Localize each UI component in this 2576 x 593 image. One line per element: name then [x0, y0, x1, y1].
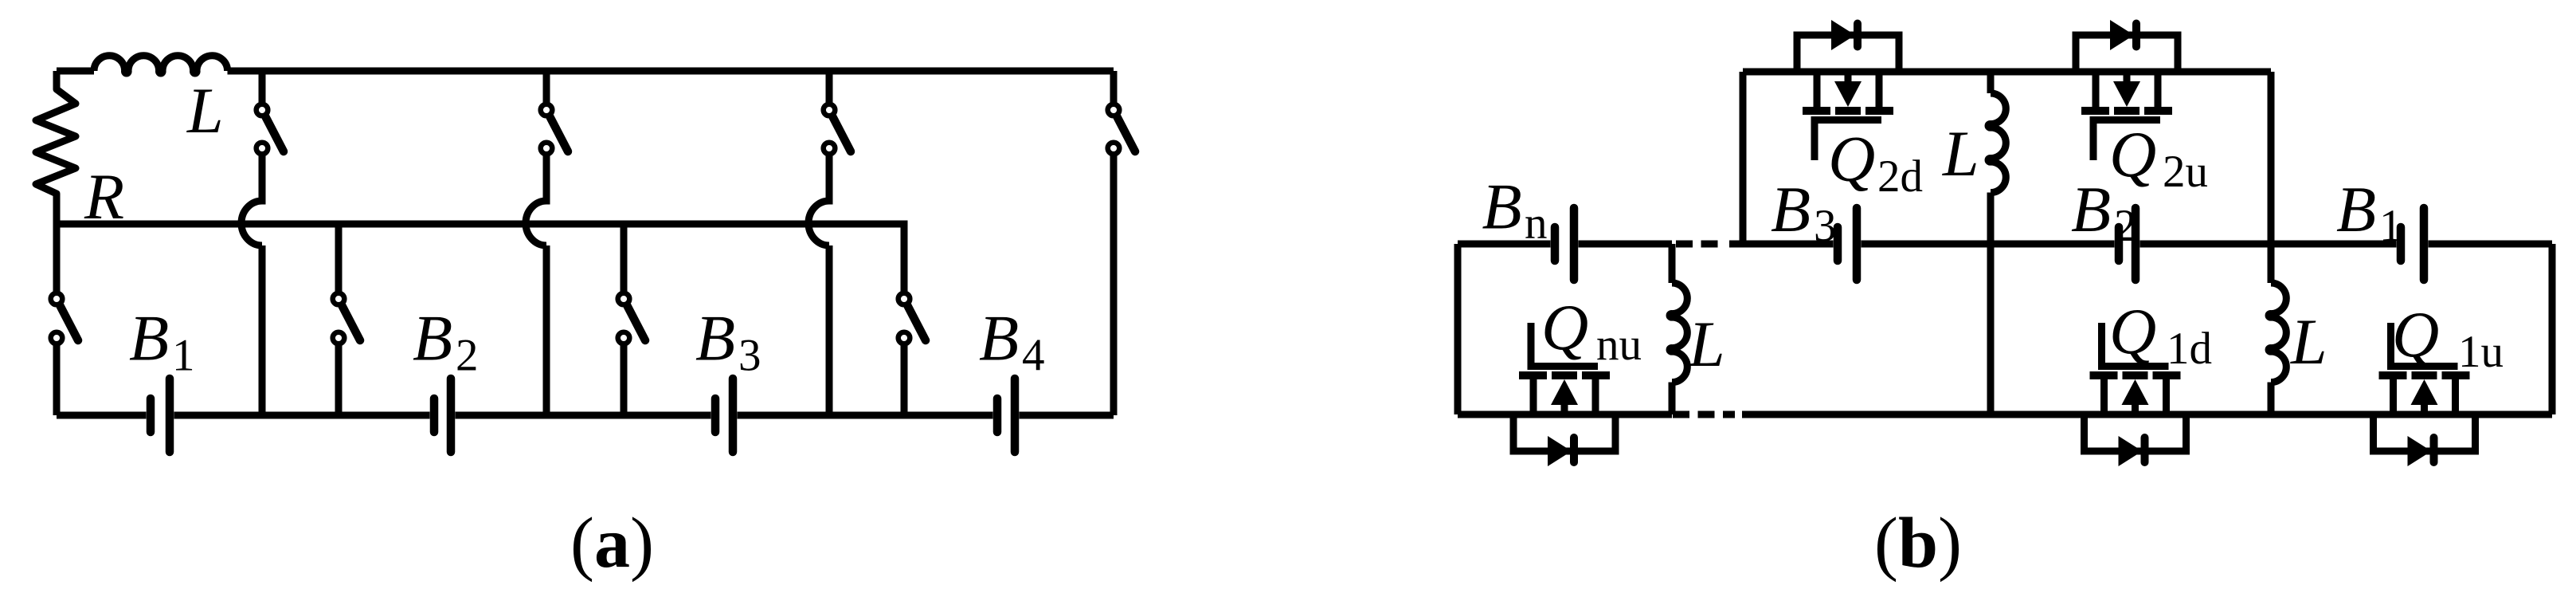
svg-text:3: 3	[738, 331, 761, 381]
svg-text:2: 2	[2114, 201, 2137, 251]
svg-text:1d: 1d	[2167, 324, 2212, 374]
svg-text:Q: Q	[1541, 291, 1588, 363]
svg-text:4: 4	[1022, 331, 1045, 381]
svg-text:B: B	[413, 302, 452, 375]
svg-text:Q: Q	[1828, 123, 1875, 195]
svg-text:n: n	[1525, 198, 1548, 249]
svg-text:L: L	[1942, 117, 1979, 190]
svg-text:2: 2	[456, 331, 479, 381]
svg-text:B: B	[695, 302, 735, 375]
svg-text:B: B	[1482, 171, 1522, 243]
svg-text:1u: 1u	[2458, 327, 2504, 377]
svg-text:Q: Q	[2392, 298, 2439, 371]
svg-text:(a): (a)	[570, 504, 654, 583]
svg-text:1: 1	[2379, 201, 2402, 251]
svg-text:L: L	[186, 74, 224, 147]
svg-text:3: 3	[1814, 201, 1837, 251]
svg-text:1: 1	[172, 331, 195, 381]
svg-text:Q: Q	[2109, 295, 2156, 367]
svg-text:L: L	[2290, 305, 2327, 378]
svg-text:R: R	[84, 160, 124, 233]
svg-text:L: L	[1688, 308, 1725, 380]
svg-text:Q: Q	[2109, 118, 2156, 190]
svg-text:B: B	[2336, 173, 2376, 245]
svg-text:2d: 2d	[1877, 151, 1923, 202]
svg-text:nu: nu	[1596, 320, 1642, 370]
svg-text:B: B	[2071, 173, 2111, 245]
svg-text:(b): (b)	[1874, 504, 1962, 583]
svg-text:2u: 2u	[2163, 147, 2208, 197]
svg-text:B: B	[979, 302, 1019, 375]
svg-text:B: B	[129, 302, 169, 375]
svg-text:B: B	[1771, 173, 1811, 245]
